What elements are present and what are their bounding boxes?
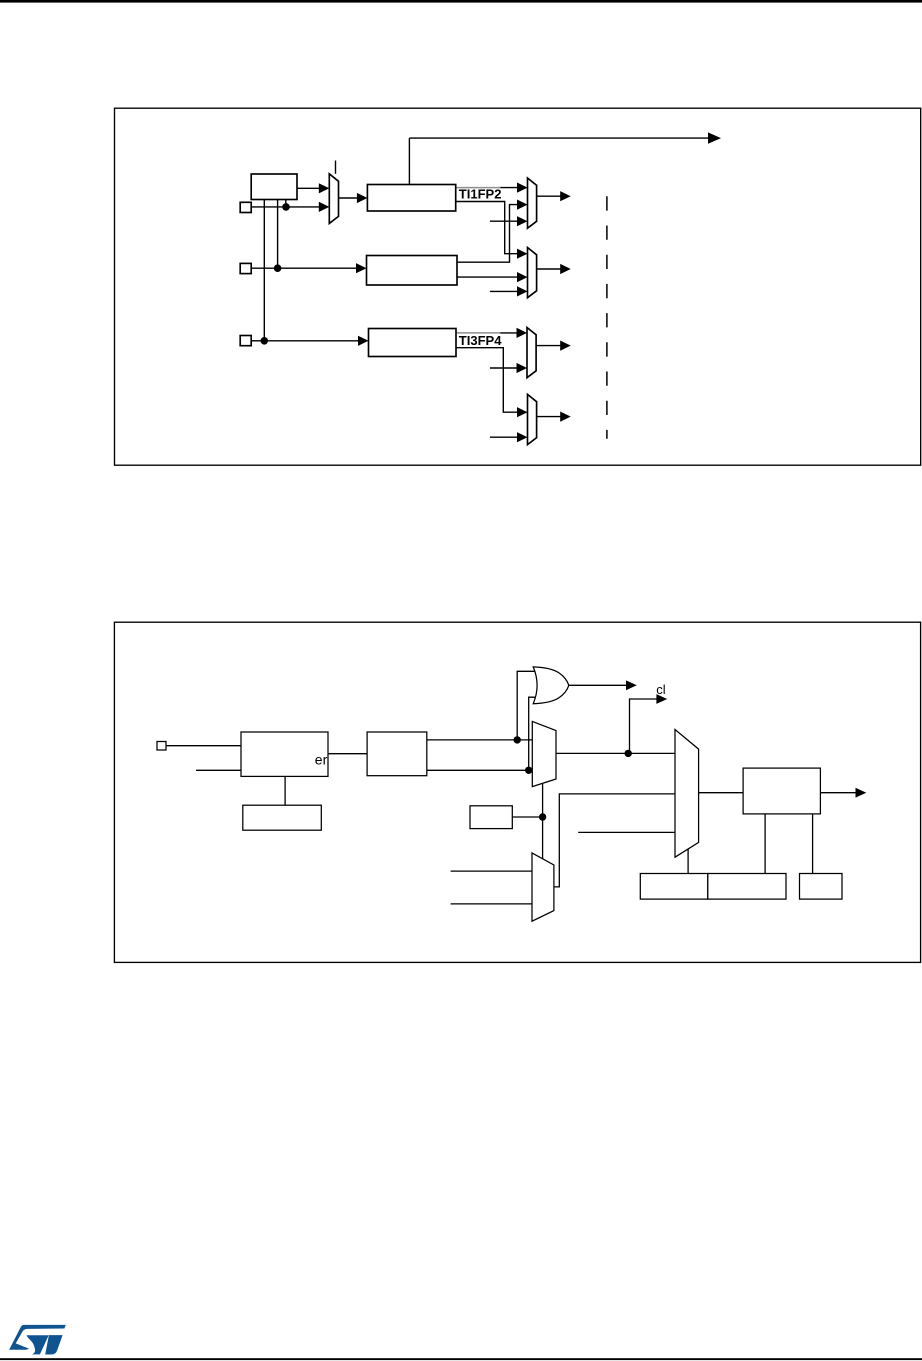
block register row 2 [708, 874, 786, 900]
wire mux A bottom to mux C [542, 784, 544, 859]
junction node TI3 [261, 337, 269, 345]
block delay [470, 806, 512, 829]
wire mux C output up to mux B [554, 794, 675, 887]
arrowhead mux1 out [560, 191, 571, 201]
wire second input to block1 [196, 769, 241, 771]
arrowhead OR output [626, 680, 637, 690]
block polarity and prescaler [241, 732, 328, 776]
block register row 1 [640, 874, 708, 900]
stub wire to mux B input 3 [578, 831, 675, 833]
mux C [532, 853, 554, 921]
wire counter output [820, 792, 856, 794]
mux3 [527, 328, 536, 378]
OR gate [533, 667, 569, 704]
select tick above polarity selector [335, 161, 337, 174]
wire OR input 2 [529, 697, 543, 770]
mux1 [528, 178, 537, 228]
dashed separator line [606, 196, 608, 438]
wire polarity selector output [339, 197, 359, 199]
wire block1 down to register block [284, 776, 286, 805]
wire mux1 output [537, 195, 562, 197]
wire ETR pin to block [166, 745, 241, 747]
wire block1 lower output to mux2 [456, 202, 519, 254]
block IC3 [369, 329, 457, 357]
arrowhead mux4 in2 [517, 432, 528, 442]
wire vertical to channel 3 [263, 200, 265, 341]
wire TI2 pin to block2 [252, 267, 358, 269]
arrowhead mux2 in1 [517, 249, 528, 259]
arrowhead mux1 in2 [517, 200, 528, 210]
block register SMCR [243, 805, 321, 830]
svg-text:er: er [315, 751, 328, 767]
svg-text:cl: cl [656, 682, 666, 697]
wire OR input 1 [517, 671, 541, 740]
ST logo S bowl [27, 1335, 49, 1354]
wire TI1FP2 grey segment [456, 187, 500, 189]
wire vertical to channel 2 [277, 200, 279, 269]
svg-text:TI3FP4: TI3FP4 [459, 333, 502, 348]
wire mux B output to counter [699, 792, 744, 794]
stub mux2 input3 [490, 290, 519, 292]
wire TI3FP4 grey segment [457, 332, 501, 334]
long top wire [409, 137, 709, 139]
filter block channel1 [251, 174, 297, 200]
wire mux2 output [537, 268, 562, 270]
input pin TI3 [240, 336, 251, 346]
ST logo swoosh stroke [9, 1325, 66, 1350]
arrowhead mux2 in2 [517, 272, 528, 282]
mux A [532, 721, 556, 786]
arrowhead into block IC2 [356, 263, 367, 273]
wire RC block output [297, 187, 320, 189]
arrowhead mux3 in2 [517, 363, 528, 373]
bottom page rule [0, 1358, 922, 1360]
stub mux1 input3 [490, 220, 519, 222]
svg-text:TI1FP2: TI1FP2 [459, 187, 502, 202]
arrowhead TI1 in [319, 202, 330, 212]
wire filter upper output to mux A [427, 739, 533, 741]
block register 3 [800, 874, 843, 900]
wire OR output [569, 684, 627, 686]
wire block3 lower output to mux4 [456, 348, 519, 413]
wire TI3FP4 black segment [500, 332, 519, 334]
arrowhead into block IC3 [358, 336, 369, 346]
top page rule [0, 0, 922, 3]
block IC2 [367, 256, 458, 286]
figure 1 frame [115, 108, 921, 465]
arrowhead RC out [319, 183, 330, 193]
junction main wire node [625, 750, 632, 757]
mux B [675, 730, 699, 858]
mux2 [528, 248, 537, 298]
arrowhead mux4 in1 [517, 407, 528, 417]
junction OR input 2 node [525, 767, 532, 774]
wire mux A output to mux B [556, 752, 675, 754]
wire cl arrow from main node [630, 699, 658, 753]
arrowhead mux3 out [560, 341, 571, 351]
mux4 [528, 394, 537, 444]
input pin ETR [157, 742, 166, 751]
wire mux C input 2 [451, 903, 532, 905]
junction OR input 1 node [514, 736, 521, 743]
arrowhead mux2 out [560, 264, 571, 274]
stub mux4 input2 [490, 436, 519, 438]
junction node TI2 [274, 264, 282, 272]
arrowhead cl [656, 694, 667, 704]
wire mux C input 1 [451, 870, 532, 872]
ST logo T bar [45, 1335, 62, 1354]
figure 2 frame [114, 622, 920, 962]
input pin TI2 [240, 263, 251, 273]
block counter [743, 768, 820, 814]
wire mux B bottom to register row [687, 849, 689, 874]
wire mux4 output [537, 416, 562, 418]
block IC1 [367, 185, 455, 212]
wire counter to register 2 [764, 814, 766, 874]
polarity selector trapezoid [329, 174, 338, 224]
input pin TI1 [240, 202, 251, 212]
arrowhead counter output [856, 788, 867, 798]
arrowhead mux3 in1 [517, 328, 528, 338]
wire mux2 input2 from block2 [457, 276, 519, 278]
stub mux3 input2 [490, 367, 518, 369]
wire filter lower output to mux A [427, 769, 533, 771]
block filter [367, 732, 427, 776]
arrowhead long top arrow [708, 132, 721, 143]
wire mux3 output [536, 345, 561, 347]
junction node TI1 [282, 203, 290, 211]
wire stub RC block to TI1 node [285, 200, 287, 207]
wire TI1FP2 black segment [500, 187, 519, 189]
wire delay block output [512, 816, 542, 818]
wire TI1 pin to polarity selector [252, 206, 320, 208]
wire TI3 pin to block3 [252, 340, 360, 342]
arrowhead into block IC1 [357, 193, 368, 203]
arrowhead mux2 in3 [517, 286, 528, 296]
arrowhead mux1 in1 [517, 183, 528, 193]
wire block1 to block2 [328, 753, 367, 755]
wire counter to register 3 [812, 814, 814, 874]
junction delay node [539, 813, 546, 820]
arrowhead mux4 out [560, 412, 571, 422]
wire block1 top to long arrow [408, 138, 410, 184]
wire channel2 up to mux1 input2 [457, 205, 519, 263]
arrowhead mux1 in3 [517, 216, 528, 226]
